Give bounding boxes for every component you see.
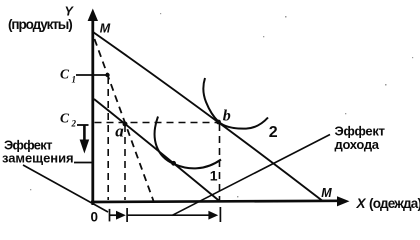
svg-text:M: M [321,186,332,200]
C2 tick [77,124,89,126]
svg-text:2: 2 [71,119,77,129]
axis Y arrowhead [88,9,98,22]
compensated budget line [94,99,220,202]
svg-text:X: X [356,196,367,211]
scan speckles (decorative) [30,13,413,197]
svg-text:дохода: дохода [335,137,380,152]
bottom arrow short [110,214,118,216]
dashed vertical x1 (under C1 dot) [107,77,109,200]
dashed vertical under a [124,125,126,200]
bottom measure: tick 2 [126,208,128,222]
pointer line: substitution effect [23,165,108,212]
budget line M-M [93,32,322,201]
svg-text:0: 0 [91,210,99,225]
bottom arrow long [127,214,209,216]
axis Y [91,17,94,205]
svg-text:2: 2 [269,124,278,141]
svg-text:C: C [60,67,70,82]
dot on C1 line [105,73,109,77]
node b dot [216,120,221,125]
node a dot [123,122,128,127]
bottom measure: tick 3 [219,207,221,222]
axis X arrowhead [337,196,350,206]
svg-text:1: 1 [210,168,218,184]
svg-text:(продукты): (продукты) [8,17,72,32]
svg-text:M: M [100,22,111,36]
axis X [91,201,340,202]
C1 level line [76,74,109,76]
svg-text:1: 1 [72,75,77,85]
indifference curve 1 [155,117,221,169]
svg-text:(одежда): (одежда) [369,196,420,211]
tick at tangent level [74,162,92,164]
pointer line: income effect [172,135,330,216]
svg-text:a: a [115,122,124,141]
dashed horizontal C2-a-b [95,122,219,124]
dashed vertical under b [219,124,221,200]
bottom measure: tick 1 [109,209,111,222]
svg-text:замещения: замещения [2,151,74,166]
tangent dot on curve 1 [171,161,176,166]
svg-text:b: b [223,108,231,125]
new budget line (steep, dashed) [95,39,154,201]
indifference curve 2 [203,78,268,129]
down arrow (C1 to C2 drop) [83,125,86,141]
svg-text:C: C [60,111,70,126]
